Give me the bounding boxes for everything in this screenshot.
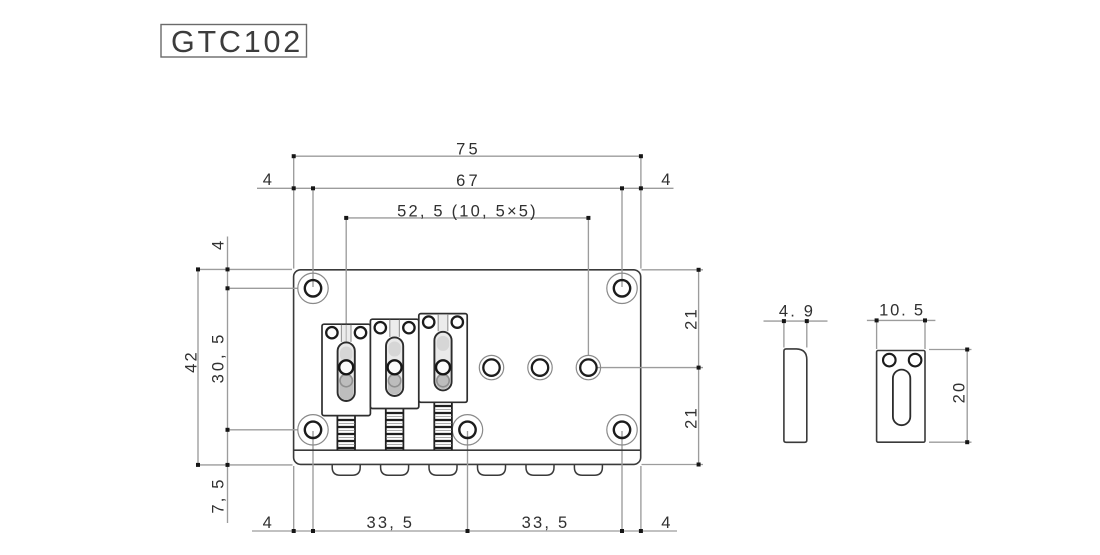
mounting hole top-right <box>607 273 637 303</box>
saddle 2 <box>370 319 418 408</box>
svg-text:20: 20 <box>951 381 969 404</box>
svg-text:7, 5: 7, 5 <box>210 477 228 513</box>
dimension 21 / 21 right <box>597 270 703 465</box>
svg-text:67: 67 <box>456 172 481 190</box>
title box GTC102 <box>161 25 307 60</box>
saddle 1 <box>322 324 370 415</box>
svg-text:52, 5 (10, 5×5): 52, 5 (10, 5×5) <box>397 202 538 220</box>
string hole 4 <box>479 355 503 379</box>
string notch 4 <box>478 465 506 475</box>
top view saddle piece <box>877 351 925 443</box>
side view saddle piece <box>784 349 807 442</box>
svg-text:30, 5: 30, 5 <box>210 332 228 384</box>
spring 1 <box>337 416 355 450</box>
string notch 2 <box>381 465 409 475</box>
mounting hole top-left <box>298 273 328 303</box>
svg-text:GTC102: GTC102 <box>171 25 303 59</box>
svg-text:10. 5: 10. 5 <box>879 302 925 320</box>
svg-text:4: 4 <box>263 514 274 532</box>
svg-text:4: 4 <box>210 239 228 250</box>
string hole 6 <box>576 355 600 379</box>
svg-text:33, 5: 33, 5 <box>366 514 414 532</box>
dimension column 4 / 30,5 / 7,5 left <box>228 237 299 524</box>
dimension 67 with side 4s <box>257 188 674 287</box>
mounting hole bottom-right <box>607 415 637 445</box>
svg-text:4. 9: 4. 9 <box>779 303 815 321</box>
plate outline <box>294 270 641 465</box>
svg-text:21: 21 <box>682 406 700 429</box>
svg-text:21: 21 <box>682 307 700 330</box>
spring 2 <box>386 409 404 451</box>
mounting hole bottom-middle <box>452 415 482 445</box>
string notch 1 <box>332 465 360 475</box>
string notch 6 <box>574 465 602 475</box>
spring 3 <box>434 402 452 450</box>
flange line <box>294 449 641 451</box>
dimension 4.9 side view <box>764 321 828 347</box>
svg-text:4: 4 <box>661 514 672 532</box>
svg-text:75: 75 <box>456 141 481 159</box>
string notch 3 <box>429 465 457 475</box>
dimension 75 <box>294 156 641 268</box>
mounting hole bottom-left <box>298 415 328 445</box>
dimension 20 top view <box>929 350 972 443</box>
svg-text:4: 4 <box>263 171 274 189</box>
bottom dimensions 4 / 33,5 / 33,5 / 4 <box>252 431 677 531</box>
dimension 52,5 (10,5x5) <box>346 218 588 355</box>
dimension 42 left <box>198 269 293 465</box>
svg-text:4: 4 <box>661 171 672 189</box>
string notch 5 <box>526 465 554 475</box>
svg-text:42: 42 <box>183 350 201 373</box>
string hole 5 <box>528 355 552 379</box>
svg-text:33, 5: 33, 5 <box>522 514 570 532</box>
dimension 10.5 top view <box>867 320 936 349</box>
saddle 3 <box>419 314 467 403</box>
